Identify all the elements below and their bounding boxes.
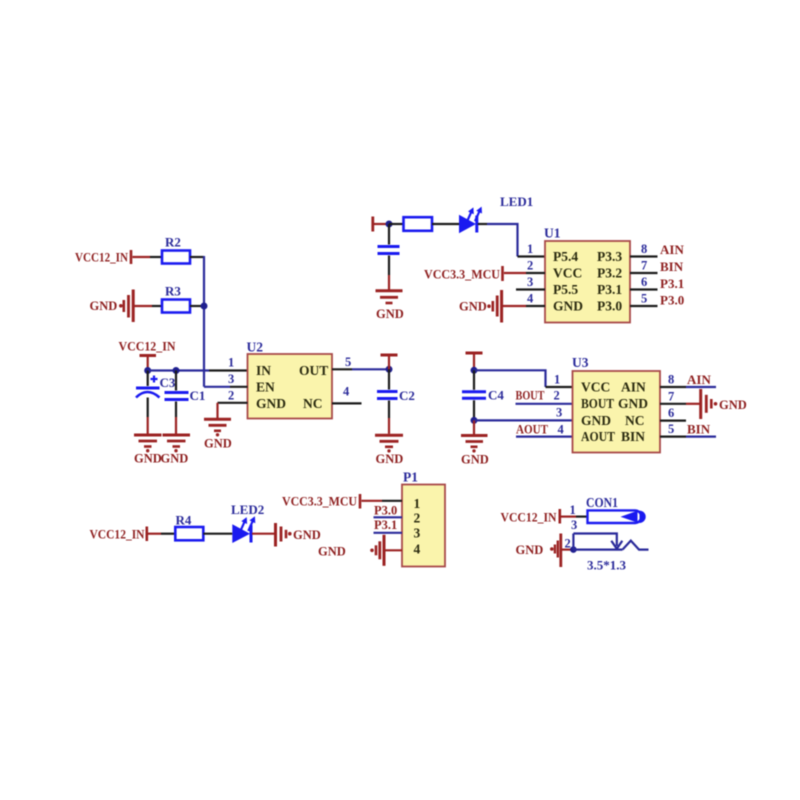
- svg-text:IN: IN: [256, 363, 271, 378]
- node GND (text below C1): [161, 452, 189, 466]
- node P3.1 (net label at P1 pin 3): [374, 518, 397, 532]
- U2 pin name IN: [256, 363, 271, 378]
- wire AIN net segment: [686, 386, 716, 388]
- U1 pin number 1: [527, 242, 533, 256]
- wire P3.0 to P1 pin 2: [374, 516, 403, 518]
- svg-text:OUT: OUT: [299, 363, 328, 378]
- svg-text:VCC12_IN: VCC12_IN: [75, 251, 128, 265]
- pin marker (power stub left of LED1 branch): [373, 217, 386, 232]
- svg-text:VCC12_IN: VCC12_IN: [119, 340, 176, 354]
- ground symbol below C2: [375, 435, 403, 452]
- svg-text:8: 8: [641, 242, 647, 256]
- label R3: [165, 284, 181, 299]
- pin marker VCC12_IN (R4): [146, 527, 149, 542]
- svg-text:AOUT: AOUT: [516, 422, 548, 437]
- U3 pin number 5: [668, 422, 674, 436]
- wire R3 to bus: [190, 305, 204, 307]
- LED LED1: [459, 207, 482, 234]
- node VCC12_IN (power port above C3): [119, 340, 176, 354]
- CON1 pin number 3: [571, 518, 577, 532]
- U3 pin number 2: [554, 389, 560, 403]
- svg-text:GND: GND: [161, 452, 189, 466]
- svg-text:GND: GND: [90, 299, 118, 313]
- svg-text:VCC: VCC: [581, 380, 610, 395]
- U2 pin number 1: [228, 356, 234, 370]
- node BIN (net label at U3 pin 5): [687, 422, 711, 437]
- label C2: [399, 388, 415, 403]
- wire bus to U2 EN (pin 3): [204, 386, 248, 388]
- U2 pin name GND: [256, 396, 286, 411]
- wire U2 GND (pin 2) to ground: [218, 403, 248, 418]
- U1 pin number 4: [527, 292, 534, 306]
- svg-text:BOUT: BOUT: [516, 388, 545, 403]
- junction LED1 branch: [386, 221, 393, 228]
- junction VCC12_IN / C3: [144, 367, 151, 374]
- node VCC12_IN (net label at CON1): [501, 511, 557, 525]
- svg-text:4: 4: [343, 385, 350, 399]
- svg-text:VCC12_IN: VCC12_IN: [501, 511, 557, 525]
- wire C4 to U3 pin 1: [474, 370, 573, 387]
- svg-text:GND: GND: [204, 437, 232, 451]
- svg-text:AIN: AIN: [660, 242, 684, 257]
- wire U1 pin 7 stub: [630, 272, 658, 274]
- pin marker VCC3.3_MCU: [501, 266, 504, 281]
- wire P3.1 to P1 pin 3: [374, 532, 403, 534]
- svg-text:1: 1: [527, 242, 533, 256]
- svg-text:U1: U1: [544, 226, 561, 241]
- svg-text:BIN: BIN: [621, 429, 645, 444]
- node P3.0 (net label at P1 pin 2): [374, 504, 397, 518]
- svg-text:8: 8: [668, 373, 674, 387]
- svg-text:5: 5: [668, 422, 674, 436]
- wire R2 to bus: [190, 256, 204, 258]
- ground GND (sideways, at CON1): [516, 534, 561, 568]
- svg-text:4: 4: [527, 292, 534, 306]
- wire U1 pin 6 stub: [630, 288, 658, 290]
- ground GND (sideways, at U3 pin 7): [701, 389, 747, 419]
- CON1 switch contact: [573, 534, 622, 549]
- svg-text:3: 3: [527, 275, 533, 289]
- svg-text:P1: P1: [403, 470, 418, 485]
- ground symbol (LED1 branch): [376, 291, 403, 303]
- svg-text:GND: GND: [134, 452, 162, 466]
- svg-text:P3.0: P3.0: [374, 504, 397, 518]
- svg-text:GND: GND: [581, 413, 611, 428]
- ground GND (sideways, at U1 pin 4): [459, 290, 502, 323]
- ground symbol below C1: [163, 435, 191, 452]
- U1 pin name GND: [553, 299, 583, 314]
- svg-text:LED2: LED2: [231, 502, 264, 517]
- U1 pin number 5: [641, 292, 647, 306]
- resistor R3: [162, 300, 190, 313]
- wire U1 pin 8 stub: [630, 255, 658, 257]
- wire U3 pin 7 to ground: [686, 403, 700, 405]
- wire U3 pin 5 stub: [660, 436, 686, 438]
- junction C1: [173, 367, 180, 374]
- P1 pin number 2: [414, 511, 421, 526]
- svg-text:GND: GND: [293, 528, 321, 542]
- wire GND to P1 pin 4: [385, 549, 402, 551]
- U1 pin name VCC: [553, 266, 582, 281]
- node P3.1 (net label at U1 pin 6): [660, 276, 684, 291]
- svg-text:1: 1: [228, 356, 234, 370]
- CON1 spring zigzag: [623, 541, 649, 550]
- LED LED2: [232, 516, 255, 543]
- svg-text:P5.5: P5.5: [553, 282, 578, 297]
- resistor R4: [175, 527, 203, 540]
- svg-text:5: 5: [641, 292, 647, 306]
- wire VCC12_IN to R4: [148, 533, 175, 535]
- svg-text:BIN: BIN: [660, 259, 684, 274]
- svg-text:2: 2: [527, 259, 533, 273]
- capacitor C3 (polarized): [136, 371, 160, 434]
- svg-text:1: 1: [414, 496, 421, 511]
- power bar above C2: [381, 355, 398, 369]
- wire vertical bus R2/R3 to U2 EN: [203, 256, 205, 387]
- svg-text:3: 3: [414, 526, 421, 541]
- U1 pin name P5.5: [553, 282, 578, 297]
- U1 pin number 2: [527, 259, 533, 273]
- wire R4 to LED2: [203, 533, 232, 535]
- node GND (text LED1 branch): [376, 307, 404, 321]
- label C3: [160, 375, 176, 390]
- svg-text:VCC: VCC: [553, 266, 582, 281]
- capacitor C1: [165, 371, 189, 434]
- svg-text:P3.3: P3.3: [597, 249, 622, 264]
- U3 pin name BOUT: [581, 396, 614, 411]
- svg-text:GND: GND: [256, 396, 286, 411]
- svg-text:P3.0: P3.0: [660, 293, 684, 308]
- U3 pin number 4: [558, 423, 565, 437]
- ground GND (sideways, at R3): [90, 290, 134, 323]
- U1 pin name P3.3: [597, 249, 622, 264]
- U2 pin name NC: [303, 396, 323, 411]
- wire U2 OUT (pin 5) to C2: [332, 368, 389, 370]
- U3 pin name BIN: [621, 429, 645, 444]
- svg-text:C2: C2: [399, 388, 415, 403]
- svg-text:VCC3.3_MCU: VCC3.3_MCU: [282, 495, 357, 509]
- wire VCC3.3_MCU to P1 pin 1: [362, 500, 403, 502]
- svg-text:3: 3: [228, 372, 234, 386]
- U1 pin number 3: [527, 275, 533, 289]
- wire resistor to LED1: [432, 223, 459, 225]
- U3 pin name GND (right): [618, 396, 648, 411]
- svg-text:C4: C4: [488, 388, 504, 403]
- node AIN (net label at U1 pin 8): [660, 242, 684, 257]
- svg-text:GND: GND: [618, 396, 648, 411]
- svg-text:1: 1: [554, 373, 560, 387]
- wire U3 pin 6 stub: [660, 420, 686, 422]
- junction CON1 pin 2/3: [570, 546, 577, 553]
- CON1 pin number 2: [565, 537, 571, 551]
- capacitor (below LED1 junction): [378, 224, 400, 290]
- wire GND to CON1 junction: [562, 548, 573, 550]
- junction R3/bus: [201, 303, 208, 310]
- svg-text:2: 2: [565, 537, 571, 551]
- svg-text:GND: GND: [553, 299, 583, 314]
- svg-text:GND: GND: [376, 452, 404, 466]
- wire U3 pin 7 stub: [660, 403, 686, 405]
- svg-text:6: 6: [641, 275, 647, 289]
- ground GND (sideways, at LED2): [276, 523, 321, 547]
- connector P1: [402, 485, 445, 567]
- svg-text:VCC12_IN: VCC12_IN: [90, 528, 145, 542]
- pin marker VCC12_IN: [130, 250, 133, 264]
- U1 pin name P3.0: [597, 299, 622, 314]
- svg-text:VCC3.3_MCU: VCC3.3_MCU: [424, 268, 500, 282]
- svg-text:C1: C1: [190, 388, 206, 403]
- connector CON1 barrel: [588, 510, 646, 523]
- label CON1: [586, 495, 618, 510]
- svg-text:GND: GND: [516, 543, 544, 557]
- label LED1: [500, 194, 533, 209]
- U3 pin number 6: [668, 406, 674, 420]
- svg-text:P3.1: P3.1: [597, 282, 622, 297]
- U3 pin number 3: [556, 406, 562, 420]
- svg-text:P5.4: P5.4: [553, 249, 578, 264]
- node P3.0 (net label at U1 pin 5): [660, 293, 684, 308]
- node VCC3.3_MCU (net label at U1 pin 2): [424, 268, 500, 282]
- U3 pin name AOUT: [581, 429, 615, 444]
- svg-text:AIN: AIN: [621, 380, 646, 395]
- P1 pin number 1: [414, 496, 421, 511]
- svg-text:GND: GND: [461, 453, 489, 467]
- U3 pin name VCC: [581, 380, 610, 395]
- svg-text:BIN: BIN: [687, 422, 711, 437]
- svg-text:NC: NC: [303, 396, 323, 411]
- wire VCC3.3_MCU to U1 pin 2: [504, 272, 545, 274]
- node VCC12_IN (net label at R4): [90, 528, 145, 542]
- U3 pin number 8: [668, 373, 674, 387]
- node GND (text below C2): [376, 452, 404, 466]
- wire LED1 to U1 pin 1: [478, 224, 545, 257]
- wire BOUT to U3 pin 2: [516, 403, 573, 405]
- svg-text:R3: R3: [165, 284, 181, 299]
- power bar VCC12_IN: [140, 356, 157, 371]
- label U1: [544, 226, 561, 241]
- label U3: [572, 355, 589, 370]
- pin marker VCC3.3_MCU (P1): [359, 494, 362, 509]
- resistor (LED1 series): [404, 217, 433, 231]
- svg-text:P3.1: P3.1: [374, 518, 397, 532]
- wire CON1 vertical pin 3 drop: [572, 534, 574, 550]
- svg-text:P3.1: P3.1: [660, 276, 684, 291]
- capacitor C4: [462, 370, 486, 420]
- svg-text:BOUT: BOUT: [581, 396, 614, 411]
- label P1: [403, 470, 418, 485]
- junction C4 top: [471, 367, 478, 374]
- ground GND (sideways, at P1 pin 4): [318, 535, 384, 566]
- svg-text:1: 1: [570, 503, 576, 517]
- U3 pin name AIN: [621, 380, 646, 395]
- svg-text:5: 5: [345, 355, 351, 369]
- U2 pin name EN: [256, 380, 275, 395]
- svg-text:GND: GND: [719, 398, 747, 412]
- ground symbol below C3: [134, 435, 162, 452]
- node GND (text below C3): [134, 452, 162, 466]
- P1 pin number 3: [414, 526, 421, 541]
- wire CON1 pin 2 to switch: [573, 548, 622, 550]
- U2 pin name OUT: [299, 363, 328, 378]
- wire GND to U1 pin 4: [503, 305, 545, 307]
- U1 pin number 6: [641, 275, 647, 289]
- capacitor C2: [377, 369, 398, 434]
- svg-text:GND: GND: [459, 300, 487, 314]
- U2 pin number 5: [345, 355, 351, 369]
- label R2: [165, 235, 181, 250]
- svg-text:CON1: CON1: [586, 495, 618, 510]
- U3 pin name NC: [625, 413, 645, 428]
- U1 pin number 7: [641, 259, 647, 273]
- node VCC12_IN (net label, top-left): [75, 251, 128, 265]
- pin marker VCC12_IN (CON1): [558, 509, 561, 524]
- ground symbol below C4: [461, 436, 488, 453]
- svg-text:7: 7: [641, 259, 647, 273]
- svg-text:R4: R4: [176, 513, 192, 528]
- wire C4 bottom to ground: [473, 420, 475, 434]
- svg-text:3.5*1.3: 3.5*1.3: [587, 558, 627, 573]
- svg-text:4: 4: [558, 423, 565, 437]
- svg-text:AIN: AIN: [687, 372, 711, 387]
- resistor R2: [162, 251, 190, 264]
- svg-text:GND: GND: [318, 545, 346, 559]
- wire AOUT to U3 pin 4: [516, 436, 573, 438]
- wire LED2 to ground: [252, 533, 276, 535]
- node BOUT (net label at U3 pin 2): [516, 388, 545, 403]
- svg-text:3: 3: [571, 518, 577, 532]
- U2 pin number 2: [228, 389, 234, 403]
- wire U3 pin 8 stub: [660, 386, 686, 388]
- power bar above C4: [466, 353, 483, 370]
- svg-text:2: 2: [414, 511, 421, 526]
- node GND (text below C4): [461, 453, 489, 467]
- node AIN (net label at U3 pin 8): [687, 372, 711, 387]
- junction C4 bottom: [471, 417, 478, 424]
- wire U1 pin 3 stub: [516, 288, 545, 290]
- IC U3: [573, 371, 661, 453]
- node VCC3.3_MCU (net label at P1 pin 1): [282, 495, 357, 509]
- wire C4 bottom to U3 pin 3: [474, 419, 573, 421]
- label C4: [488, 388, 504, 403]
- label C1: [190, 388, 206, 403]
- svg-text:4: 4: [414, 542, 421, 557]
- svg-text:NC: NC: [625, 413, 645, 428]
- svg-text:U3: U3: [572, 355, 589, 370]
- wire VCC12_IN to CON1 pin 1: [561, 515, 588, 517]
- svg-text:3: 3: [556, 406, 562, 420]
- U3 pin number 1: [554, 373, 560, 387]
- wire U1 pin 5 stub: [630, 305, 658, 307]
- svg-text:EN: EN: [256, 380, 275, 395]
- wire VCC12_IN to R2: [133, 256, 163, 258]
- junction U2 OUT / C2: [386, 366, 393, 373]
- label R4: [176, 513, 192, 528]
- svg-text:2: 2: [228, 389, 234, 403]
- svg-text:C3: C3: [160, 375, 176, 390]
- svg-text:6: 6: [668, 406, 674, 420]
- U3 pin number 7: [668, 389, 674, 403]
- wire junction to resistor: [389, 223, 404, 225]
- label U2: [247, 340, 264, 355]
- U1 pin name P3.2: [597, 266, 622, 281]
- U1 pin number 8: [641, 242, 647, 256]
- value label 3.5*1.3: [587, 558, 627, 573]
- svg-text:2: 2: [554, 389, 560, 403]
- P1 pin number 4: [414, 542, 421, 557]
- U3 pin name GND: [581, 413, 611, 428]
- node BIN (net label at U1 pin 7): [660, 259, 684, 274]
- label LED2: [231, 502, 264, 517]
- svg-text:U2: U2: [247, 340, 264, 355]
- svg-text:P3.2: P3.2: [597, 266, 622, 281]
- IC U1: [545, 241, 630, 323]
- U2 pin number 4: [343, 385, 350, 399]
- wire GND to R3: [134, 305, 162, 307]
- node GND (text at U2 pin 2): [204, 437, 232, 451]
- CON1 pin number 1: [570, 503, 576, 517]
- wire BIN net segment: [686, 436, 716, 438]
- wire U2 NC (pin 4) stub: [332, 402, 362, 404]
- IC U2 (regulator): [248, 354, 333, 419]
- svg-text:GND: GND: [376, 307, 404, 321]
- U1 pin name P3.1: [597, 282, 622, 297]
- svg-text:R2: R2: [165, 235, 181, 250]
- svg-text:7: 7: [668, 389, 674, 403]
- svg-text:P3.0: P3.0: [597, 299, 622, 314]
- svg-text:AOUT: AOUT: [581, 429, 615, 444]
- U1 pin name P5.4: [553, 249, 578, 264]
- node AOUT (net label at U3 pin 4): [516, 422, 548, 437]
- svg-text:LED1: LED1: [500, 194, 533, 209]
- U2 pin number 3: [228, 372, 234, 386]
- wire VCC12_IN to U2 IN: [148, 369, 248, 371]
- ground symbol at U2 pin 2: [204, 419, 231, 436]
